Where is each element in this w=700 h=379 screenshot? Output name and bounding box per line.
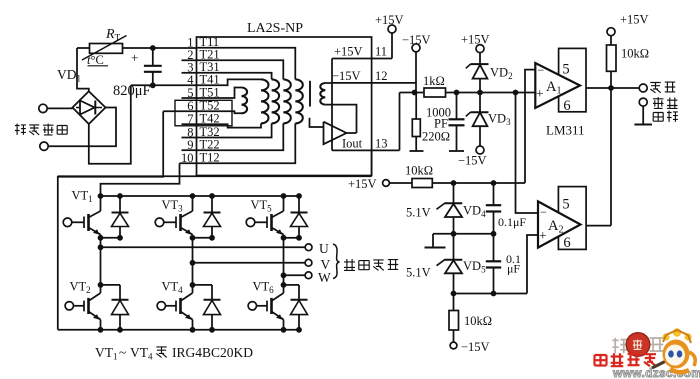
freewheel diode of VT6 [284,284,300,286]
svg-text:+15V: +15V [461,33,490,47]
LA2S-NP outer block [197,37,372,176]
capacitor 0.1uF upper [493,183,495,205]
+15V supply terminal for module [391,33,393,59]
bottom emitter rail [58,329,299,331]
svg-text:VT4: VT4 [130,345,153,362]
+15V pull-up top right [607,28,615,36]
phase wire U [100,238,102,248]
svg-text:U: U [319,241,329,256]
svg-text:6: 6 [563,98,570,114]
wire bridge bottom vertex DC- down [89,85,131,164]
wire bridge top vertex to thermistor [77,48,89,92]
comparator A1 triangle [535,63,580,108]
inner module rectangle [331,59,333,151]
junction dots on signal row [454,90,460,96]
wire T12 row to collector rail [101,163,180,196]
pin row stub wires [182,59,197,61]
pin 13 Iout line / module bottom [332,149,400,151]
svg-text:−: − [540,205,547,219]
capacitor 1000PF [456,93,458,120]
freewheel diode of VT3 [211,227,213,238]
sensor core bar [309,81,311,107]
transistor VT6 (lower IGBT) [281,282,287,288]
collector rail [101,195,300,197]
Iout wire riser [399,93,401,151]
-15V supply terminal for module [412,44,420,52]
transistor VT5 (upper IGBT) [281,193,287,199]
amp input stub [310,118,324,127]
freewheel diode of VT4 [193,284,213,286]
secondary coil [320,83,325,105]
svg-text:1kΩ: 1kΩ [423,74,445,88]
winding loop T51-T52 (pins 5/6) [197,88,242,99]
brace [333,244,340,279]
svg-text:W: W [318,270,331,285]
svg-text:−: − [538,63,545,77]
svg-text:+15V: +15V [375,13,404,27]
output ground [642,106,644,124]
capacitor 820uF [152,48,154,66]
svg-text:5.1V: 5.1V [406,266,431,280]
winding loop T21-T22 (pins 2/9) [197,60,284,79]
phase wire V [192,238,194,263]
phase wire W [283,238,285,275]
junction dot 1k left [412,90,418,96]
svg-text:μF: μF [507,262,520,276]
svg-text:RT: RT [105,27,121,43]
coil T3 [272,79,280,123]
svg-text:5.1V: 5.1V [406,206,431,220]
svg-text:220Ω: 220Ω [422,130,450,144]
svg-text:LM311: LM311 [546,123,585,138]
op-amp inside module [324,122,347,145]
labels error signal output [650,83,660,93]
svg-text:PF: PF [434,117,448,131]
svg-text:13: 13 [375,137,388,151]
A2 non-inverting wire [527,235,538,294]
wire AC top to bridge left vertex [47,107,72,109]
pin 11 +15V line [332,58,392,60]
svg-text:VT2: VT2 [70,280,91,296]
A1 output wire [586,87,639,89]
A1 inverting input wire to reference [525,70,535,183]
wire coil bottom to amp output loop [325,105,356,133]
svg-text:LA2S-NP: LA2S-NP [247,21,303,36]
pin 12 -15V line [332,82,416,84]
junction dot cap bottom on pin4 row [150,82,156,88]
winding loop T31-T32 (pins 3/8) [197,73,272,80]
svg-text:10kΩ: 10kΩ [464,314,492,328]
ground stub at zener midpoint [432,234,434,247]
coil T2 [283,79,291,123]
svg-text:VT1: VT1 [95,345,118,362]
svg-text:VT3: VT3 [162,198,184,214]
svg-text:VD5: VD5 [463,259,486,275]
svg-text:0.1μF: 0.1μF [498,215,526,229]
svg-text:10kΩ: 10kΩ [621,47,649,61]
svg-text:6: 6 [563,235,570,251]
winding loop T41-T42 (pins 4/7) [131,79,261,85]
capacitor 0.1uF lower [493,234,495,261]
resistor 220 vertical [415,93,417,120]
svg-text:+15V: +15V [620,13,649,27]
label AC voltage (jiao liu dian ya) [15,124,26,135]
transistor VT2 (lower IGBT) [98,282,104,288]
svg-text:t°C: t°C [87,53,104,67]
svg-text:VT5: VT5 [251,198,273,214]
freewheel diode of VT1 [119,227,121,238]
transistor VT3 (upper IGBT) [190,193,196,199]
freewheel diode of VT2 [101,284,121,286]
comparator A1 box [559,48,586,111]
svg-text:10kΩ: 10kΩ [405,164,433,178]
AC input terminal top [39,104,47,112]
wire coil top to -15V pin line [325,82,332,84]
coil T4 [261,79,269,123]
svg-text:+: + [539,228,547,243]
svg-text:IRG4BC20KD: IRG4BC20KD [172,345,253,360]
wire AC bottom to bridge right vertex [48,108,116,147]
signal wire to A2 inverting input [516,93,539,214]
A2 output wire [586,225,611,227]
resistor 10k reference [412,179,432,188]
watermark logo stamp [612,338,627,353]
svg-text:+15V: +15V [348,177,377,191]
watermark text weiku [595,355,607,366]
signal node row [400,92,425,94]
comparator A2 box [558,187,586,250]
svg-text:VT6: VT6 [253,280,275,296]
thermistor RT [77,47,90,49]
output terminal 1 [639,84,647,92]
output terminal 2 [639,98,647,106]
svg-text:−15V: −15V [458,154,487,168]
zener VD5 [453,234,455,260]
svg-text:Iout: Iout [342,137,363,151]
bottom reference row [454,293,528,295]
coil T5 [242,88,248,114]
resistor 10k to -15V [453,294,455,311]
resistor 1k [424,88,446,97]
freewheel diode of VT5 [298,227,300,238]
diode VD2 [479,79,481,93]
svg-text:VD3: VD3 [488,112,511,128]
svg-text:−15V: −15V [332,69,361,83]
bridge rectifier VD1 [73,91,106,124]
svg-text:−15V: −15V [461,340,490,354]
svg-text:5: 5 [562,62,569,78]
svg-text:5: 5 [562,197,569,213]
svg-text:+15V: +15V [334,45,363,59]
diode VD3 [479,93,481,127]
AC input terminal bottom [40,142,48,150]
watermark mascot [652,328,695,372]
winding loop T11-T12 (pins 1/10) [197,48,296,80]
label connect motor (jie dian dong ji) [344,259,355,270]
svg-text:11: 11 [375,45,387,59]
junction dot cap top on pin1 rail [150,45,156,51]
mid reference row [433,233,494,235]
svg-text:+: + [131,50,138,65]
svg-text:+: + [536,86,544,101]
svg-text:VT4: VT4 [162,280,184,296]
comparator A2 triangle [538,201,581,247]
svg-text:12: 12 [375,69,388,83]
svg-text:VD4: VD4 [463,204,486,220]
zener VD4 [453,183,455,203]
transistor VT1 (upper IGBT) [98,193,104,199]
svg-text:−15V: −15V [402,33,431,47]
svg-text:VD2: VD2 [490,66,513,82]
module right edge continuation to bottom rail feed [371,150,373,175]
DC feed rail top [58,175,372,177]
svg-text:VT1: VT1 [72,189,93,205]
highlight box around pins 6-7 [175,100,232,126]
coil T1 [295,79,303,123]
RT slash [82,36,127,61]
wire T52 row to bridge left rail [58,111,163,329]
svg-text:~: ~ [119,345,126,360]
transistor VT4 (lower IGBT) [190,282,196,288]
